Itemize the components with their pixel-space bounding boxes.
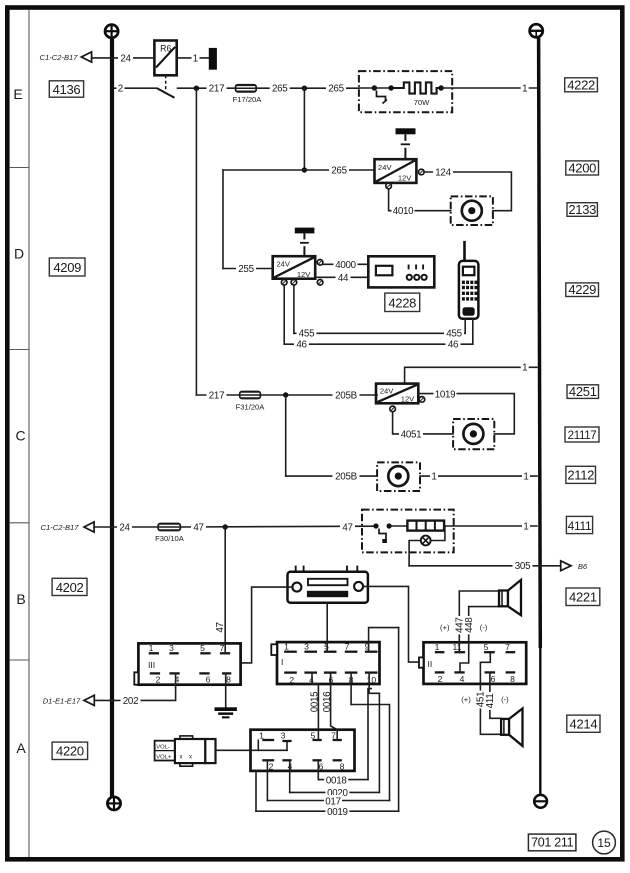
- switch blade: [157, 88, 175, 98]
- svg-text:46: 46: [296, 340, 307, 351]
- wire 4000: [323, 263, 368, 265]
- label box 4136: [49, 81, 83, 97]
- wire stalk to connector 4220: [216, 749, 251, 751]
- wire 44: [315, 276, 368, 278]
- svg-text:4229: 4229: [568, 282, 596, 297]
- voltage converter 24V/12V (4251): [376, 384, 418, 404]
- svg-text:C: C: [15, 428, 25, 444]
- svg-text:1: 1: [522, 83, 527, 94]
- svg-text:0016: 0016: [322, 691, 333, 712]
- junction at 265 row: [302, 167, 307, 172]
- wire 47 drop to connector III pin7: [224, 527, 226, 653]
- connector 2112 socket: [388, 466, 408, 486]
- voltage converter 24V/12V (phone supply): [273, 256, 316, 279]
- III pin8 stub to ground: [225, 673, 227, 707]
- svg-text:0018: 0018: [326, 775, 347, 786]
- svg-text:4251: 4251: [569, 384, 597, 399]
- fuse F31/20A: [236, 391, 266, 412]
- 4220 interior pin1 drop: [257, 740, 259, 750]
- svg-text:F17/20A: F17/20A: [233, 95, 263, 104]
- relay actuating link (dashed): [165, 75, 167, 91]
- wire 24 to fuse F30: [94, 526, 157, 528]
- wire 0018 row: [318, 779, 368, 781]
- wire 1 from relay: [177, 57, 209, 59]
- svg-text:C1-C2-B17: C1-C2-B17: [41, 523, 80, 532]
- heater output terminal: [438, 85, 443, 90]
- I bottom pin bars: [284, 671, 377, 673]
- svg-text:E: E: [13, 86, 22, 102]
- label box 4111: [566, 516, 592, 533]
- III pin7 stub: [224, 643, 226, 653]
- converter terminal bottom-left: [281, 280, 287, 286]
- illumination lamp: [421, 536, 431, 546]
- wire 47 to lighter unit: [181, 525, 376, 528]
- wire 017 row: [267, 800, 389, 802]
- svg-text:2: 2: [269, 761, 274, 771]
- 4220 top pin bars: [262, 740, 342, 741]
- LOWSECTION: [41, 510, 588, 663]
- wire drop from switch junction to fuse F31 row: [195, 88, 197, 395]
- connector 2112 (dash-dot enclosure): [377, 462, 420, 491]
- wire drop to 255 row: [222, 170, 224, 269]
- chassis ground above converter (phone): [295, 228, 315, 257]
- ground bar (relay): [209, 48, 217, 70]
- III bottom pin bars: [150, 672, 232, 674]
- margin line: [28, 10, 30, 857]
- wire 217 to fuse F31: [196, 394, 239, 396]
- 4220 left drop wire 0019: [255, 771, 257, 811]
- wire to heating element: [392, 525, 408, 527]
- connector 2133 socket: [462, 201, 482, 221]
- svg-text:44: 44: [338, 273, 349, 284]
- label box 4200: [566, 161, 599, 175]
- label box 2133: [567, 203, 597, 217]
- wire lamp to 305 drop: [409, 541, 421, 566]
- wire 1019: [418, 394, 514, 434]
- connector 4220: [251, 730, 355, 771]
- riser 0018: [368, 689, 371, 780]
- converter 4251 top wire 1 to bus: [405, 367, 537, 383]
- wire 217 to fuse F17: [178, 87, 235, 89]
- BOTSECTION: [43, 628, 526, 818]
- fuse F17/20A: [233, 84, 263, 104]
- svg-text:2: 2: [438, 674, 443, 684]
- junction switch-drop: [194, 86, 199, 91]
- svg-text:47: 47: [193, 522, 203, 533]
- junction 47 drop: [223, 524, 228, 529]
- svg-text:4222: 4222: [567, 77, 595, 92]
- label box 4220: [52, 742, 88, 759]
- svg-text:4: 4: [460, 674, 465, 684]
- riser 017: [351, 705, 389, 801]
- wire 2 from bus to switch: [114, 87, 157, 89]
- svg-text:411: 411: [485, 694, 496, 709]
- svg-text:1: 1: [284, 642, 289, 652]
- heating element 70W: [391, 82, 441, 93]
- svg-text:1: 1: [523, 472, 528, 483]
- svg-text:III: III: [148, 660, 155, 670]
- svg-text:12V: 12V: [297, 270, 311, 279]
- MIDSECTION: [196, 88, 537, 491]
- phone leg 455: [464, 319, 466, 334]
- left bus top terminal (plus in circle): [105, 25, 118, 38]
- remote control VOL stalk: [155, 736, 216, 766]
- label box 4222: [565, 78, 598, 92]
- 4220 top pin numbers 1 3 5 7: [259, 731, 336, 741]
- label box 4229: [566, 283, 599, 297]
- svg-text:15: 15: [597, 836, 611, 850]
- 4220 interior feed wire: [251, 749, 288, 751]
- svg-text:12V: 12V: [401, 395, 415, 404]
- svg-text:4136: 4136: [53, 82, 81, 97]
- margin tick 4: [10, 659, 29, 661]
- wire 448 speaker front: [469, 607, 499, 643]
- svg-text:11: 11: [453, 642, 462, 652]
- svg-text:47: 47: [342, 522, 352, 533]
- wire 255 to converter 4228: [223, 268, 273, 270]
- converter terminal right: [419, 397, 425, 403]
- svg-text:6: 6: [206, 675, 211, 685]
- title block box 701 211: [528, 834, 576, 851]
- wire 1 to right bus: [444, 525, 537, 527]
- label box 4221: [566, 588, 600, 606]
- right bus bottom terminal (minus in circle): [534, 795, 547, 808]
- wire 455 row: [294, 332, 465, 334]
- wire 205B to converter 4251: [261, 394, 377, 396]
- 4220 pin2 drop wire 017: [266, 760, 268, 800]
- svg-text:B6: B6: [578, 562, 588, 571]
- connector 2133 (dash-dot enclosure): [451, 196, 493, 225]
- svg-text:2: 2: [156, 675, 161, 685]
- label box 4251: [567, 385, 599, 399]
- left bus bottom terminal (plus in circle): [107, 797, 120, 810]
- svg-text:7: 7: [345, 642, 350, 652]
- svg-text:24: 24: [119, 522, 130, 533]
- svg-text:217: 217: [209, 390, 224, 401]
- lighter thermal hook: [379, 529, 386, 540]
- 4220 pin4 drop wire 0020: [289, 760, 291, 792]
- radio left wire to connector III: [241, 587, 293, 663]
- wire 4010: [389, 189, 451, 211]
- svg-text:2133: 2133: [568, 202, 596, 217]
- svg-text:217: 217: [209, 84, 224, 95]
- heater unit 70W (dash-dot enclosure): [359, 71, 452, 112]
- svg-text:3: 3: [169, 643, 174, 653]
- svg-text:205B: 205B: [335, 390, 357, 401]
- fuse F30/10A: [155, 523, 185, 543]
- 4220 bottom pin bars: [262, 759, 342, 761]
- thermal switch hook: [377, 91, 388, 104]
- svg-text:1: 1: [522, 363, 527, 374]
- svg-text:4010: 4010: [393, 206, 414, 217]
- svg-text:3: 3: [304, 642, 309, 652]
- svg-text:24: 24: [120, 53, 131, 64]
- svg-text:4214: 4214: [570, 717, 598, 732]
- lighter contact dots: [373, 523, 378, 528]
- junction 205B drop: [283, 392, 288, 397]
- I pin9 wire with jog from 0019 riser: [369, 628, 399, 652]
- II bottom pin numbers 2 4 6 8: [438, 674, 516, 684]
- svg-text:B: B: [16, 591, 25, 607]
- svg-text:701 211: 701 211: [531, 836, 574, 850]
- margin tick 3: [10, 522, 29, 524]
- converter output terminal right: [419, 169, 425, 175]
- svg-text:265: 265: [331, 165, 347, 176]
- BUSES: [105, 24, 547, 810]
- earth ground symbol: [215, 707, 237, 718]
- svg-text:5: 5: [311, 731, 316, 741]
- svg-text:6: 6: [491, 674, 496, 684]
- svg-text:10: 10: [367, 675, 377, 685]
- converter output terminal bottom: [386, 183, 392, 189]
- rear right speaker: [501, 709, 522, 746]
- svg-text:6: 6: [319, 761, 324, 771]
- lamp branch: [431, 526, 445, 541]
- chassis ground above converter 4200: [396, 128, 416, 159]
- wire 205B to connector 2112: [286, 475, 377, 477]
- mobile phone handset: [459, 241, 479, 319]
- wire 265 fuse to 70W box: [257, 87, 359, 89]
- svg-text:4221: 4221: [569, 590, 597, 605]
- svg-text:1: 1: [435, 642, 440, 652]
- connector II: [419, 642, 526, 684]
- II top pin numbers 1 11 5 7: [435, 642, 511, 652]
- svg-text:4228: 4228: [388, 295, 416, 310]
- label box 4228: [385, 293, 420, 311]
- II pin11 stub 447: [458, 642, 460, 652]
- wire 1 heater to right bus: [441, 87, 537, 89]
- III top pin bars: [149, 652, 231, 654]
- I pin8 stub: [350, 673, 352, 705]
- connector III: [134, 643, 240, 684]
- svg-text:8: 8: [226, 675, 231, 685]
- svg-text:I: I: [281, 657, 283, 667]
- 4220 pin6 drop wire 0018: [317, 760, 319, 779]
- svg-text:202: 202: [123, 696, 138, 707]
- left supply bus: [110, 38, 114, 797]
- wire 265 row to converter: [223, 169, 375, 171]
- phone leg 46: [472, 319, 474, 344]
- wire 0016: [331, 673, 338, 740]
- label box 21117: [565, 427, 599, 442]
- II bottom pin bars: [435, 671, 515, 673]
- svg-text:1: 1: [193, 53, 198, 64]
- svg-text:70W: 70W: [414, 98, 430, 107]
- svg-text:2: 2: [289, 675, 294, 685]
- III top pin numbers 1 3 5 7: [149, 643, 225, 653]
- node B6 arrow: [561, 561, 588, 571]
- svg-text:455: 455: [299, 329, 315, 340]
- svg-text:265: 265: [328, 84, 344, 95]
- svg-text:x: x: [189, 755, 192, 761]
- svg-text:0019: 0019: [327, 807, 348, 818]
- right ground bus (thin part): [539, 648, 541, 795]
- svg-text:5: 5: [200, 643, 205, 653]
- svg-text:F31/20A: F31/20A: [236, 403, 266, 412]
- heater input terminal: [372, 85, 377, 90]
- svg-text:017: 017: [325, 796, 340, 807]
- riser 0019: [398, 628, 400, 812]
- right ground bus (thick part): [539, 38, 541, 648]
- I pin5 stub radio wire: [326, 642, 328, 652]
- svg-text:255: 255: [238, 264, 254, 275]
- svg-text:124: 124: [435, 167, 451, 178]
- wire 202 to III pin4: [94, 673, 175, 700]
- svg-text:VOL-: VOL-: [156, 745, 170, 751]
- svg-text:(+): (+): [461, 695, 471, 704]
- svg-text:0015: 0015: [310, 691, 321, 712]
- drop to second 205B row: [285, 395, 287, 476]
- svg-text:1: 1: [431, 472, 436, 483]
- heater element terminal: [388, 85, 393, 90]
- svg-text:12V: 12V: [398, 173, 412, 182]
- svg-text:4220: 4220: [56, 744, 84, 759]
- svg-text:24V: 24V: [276, 260, 290, 269]
- II interior jog wire 448 to pin4: [460, 642, 469, 672]
- car radio head unit: [288, 566, 368, 603]
- label box 4202: [52, 578, 87, 595]
- right bus top terminal (minus in circle): [529, 24, 543, 37]
- svg-text:3: 3: [281, 731, 286, 741]
- svg-text:2: 2: [118, 84, 123, 95]
- svg-text:7: 7: [220, 643, 225, 653]
- svg-text:455: 455: [446, 329, 462, 340]
- 4220 interior pin3 drop: [286, 741, 288, 750]
- svg-text:265: 265: [272, 84, 288, 95]
- svg-text:4202: 4202: [56, 580, 84, 595]
- svg-text:VOL+: VOL+: [156, 754, 172, 760]
- I top pin bars: [284, 651, 377, 653]
- wire 305 to node B6: [409, 565, 559, 567]
- converter terminal top-right: [317, 260, 323, 266]
- svg-text:(-): (-): [501, 695, 509, 704]
- svg-text:F30/10A: F30/10A: [155, 534, 185, 543]
- wire 46 row: [284, 343, 473, 345]
- svg-text:(+): (+): [440, 623, 450, 632]
- converter terminal bottom-right: [317, 280, 323, 286]
- III bottom pin numbers 2 4 6 8: [156, 675, 232, 685]
- svg-text:1: 1: [149, 643, 154, 653]
- wire 0020 row: [290, 791, 380, 793]
- connector 21117 socket: [463, 424, 483, 444]
- 4220 bottom pin numbers 2 4 6 8: [269, 761, 345, 771]
- svg-text:2112: 2112: [567, 468, 594, 483]
- svg-text:C1-C2-B17: C1-C2-B17: [40, 53, 79, 62]
- II top pin bars: [435, 651, 515, 653]
- 4220 pin7 stub: [336, 730, 338, 740]
- svg-text:1: 1: [523, 521, 528, 532]
- svg-text:4111: 4111: [568, 519, 592, 533]
- I bottom pin numbers 2 4 6 8 10: [289, 675, 376, 685]
- relay R6: [154, 41, 176, 76]
- svg-text:5: 5: [484, 642, 489, 652]
- 4220 pin5 stub: [317, 730, 319, 740]
- svg-text:(-): (-): [480, 623, 488, 632]
- svg-text:4200: 4200: [568, 161, 596, 176]
- margin tick 2: [10, 349, 29, 351]
- TOPSECTION: [40, 41, 537, 269]
- junction 265 drop: [302, 86, 307, 91]
- connector 21117 (dash-dot enclosure): [453, 419, 494, 449]
- node D1-E1-E17: [43, 695, 95, 705]
- converter terminal bottom: [390, 406, 396, 412]
- wire 4051: [393, 412, 454, 434]
- wire 0019 row: [256, 810, 399, 812]
- wire 1 connector 2112 to bus: [420, 475, 537, 477]
- svg-text:D: D: [14, 246, 24, 262]
- wire into heater: [359, 87, 375, 89]
- unit 4111 (dash-dot enclosure): [362, 510, 454, 553]
- svg-text:7: 7: [505, 642, 510, 652]
- node C1-C2-B17 (mid): [41, 522, 95, 532]
- converter drop wires: [293, 285, 295, 333]
- margin tick 1: [10, 167, 29, 169]
- wire drop junction to 265 row: [303, 88, 305, 170]
- I top pin numbers 1 3 5 7 9: [284, 642, 370, 652]
- wire 124: [424, 172, 511, 211]
- radio right wire to connector II: [363, 586, 419, 662]
- svg-text:A: A: [16, 740, 26, 756]
- svg-text:24V: 24V: [378, 163, 392, 172]
- svg-text:24V: 24V: [380, 387, 394, 396]
- converter terminal bottom-mid: [291, 280, 297, 286]
- connector I: [271, 642, 379, 684]
- svg-text:8: 8: [340, 761, 345, 771]
- wire 0015: [317, 684, 319, 740]
- svg-text:1019: 1019: [435, 390, 456, 401]
- I pin10 stub: [369, 673, 379, 694]
- phone control unit U4228: [368, 256, 434, 287]
- svg-text:305: 305: [515, 561, 531, 572]
- wire 411 to rear speaker: [490, 672, 501, 718]
- label box 4209: [49, 258, 85, 276]
- svg-text:8: 8: [510, 674, 515, 684]
- LABELBOXES: [49, 77, 600, 759]
- wire 451 to rear speaker: [480, 684, 501, 734]
- node C1-C2-B17 (top): [40, 52, 92, 62]
- I pin4 stub jog to 0015: [312, 673, 318, 684]
- svg-text:1: 1: [259, 731, 264, 741]
- riser 0020: [378, 693, 380, 792]
- svg-text:4051: 4051: [401, 429, 422, 440]
- II pin5 jog to wire 451: [480, 652, 490, 684]
- front right speaker: [499, 580, 521, 615]
- svg-text:x: x: [180, 755, 183, 761]
- svg-text:448: 448: [464, 617, 475, 633]
- wire 447 speaker front: [459, 591, 499, 642]
- svg-text:21117: 21117: [568, 430, 597, 442]
- svg-text:II: II: [428, 659, 433, 669]
- voltage converter 24V/12V (4200): [375, 159, 417, 183]
- svg-text:7: 7: [331, 731, 336, 741]
- label box 4214: [567, 715, 600, 732]
- wire 24 to relay R6: [92, 57, 155, 59]
- radio centre wire to connector I pin5: [326, 603, 328, 642]
- svg-text:205B: 205B: [335, 472, 357, 483]
- svg-text:47: 47: [215, 622, 226, 632]
- svg-text:4000: 4000: [335, 260, 356, 271]
- wire between terminals: [374, 87, 391, 89]
- heating element block: [407, 521, 444, 531]
- page number circle 15: [593, 831, 616, 854]
- svg-text:46: 46: [448, 340, 459, 351]
- svg-text:4209: 4209: [53, 260, 81, 275]
- label box 2112: [566, 466, 596, 483]
- svg-text:D1-E1-E17: D1-E1-E17: [43, 696, 81, 705]
